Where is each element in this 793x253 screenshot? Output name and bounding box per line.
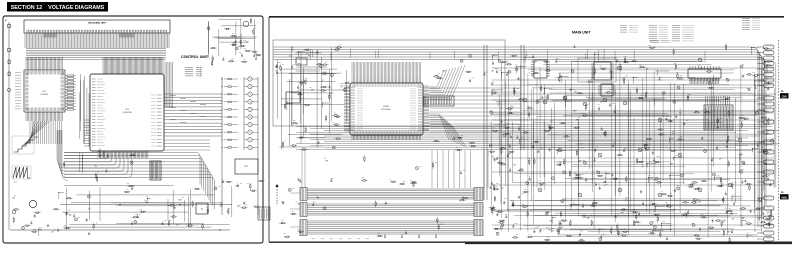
svg-text:LC75853N: LC75853N xyxy=(40,94,48,96)
svg-text:to: to xyxy=(781,190,784,194)
svg-text:MAIN UNIT: MAIN UNIT xyxy=(572,31,591,35)
svg-text:IC301: IC301 xyxy=(383,106,389,108)
svg-text:SECTION 12 VOLTAGE DIAGRAMS: SECTION 12 VOLTAGE DIAGRAMS xyxy=(11,5,105,11)
svg-text:to: to xyxy=(781,89,784,93)
svg-text:UPD78044F: UPD78044F xyxy=(381,109,390,111)
svg-text:X1: X1 xyxy=(201,209,203,211)
svg-text:CONTROL UNIT: CONTROL UNIT xyxy=(181,55,209,59)
svg-text:SW BOARD UNIT: SW BOARD UNIT xyxy=(88,22,107,25)
svg-text:CN2: CN2 xyxy=(782,94,788,98)
svg-text:RY1: RY1 xyxy=(244,166,248,168)
svg-text:D(B): D(B) xyxy=(781,195,787,199)
svg-text:LC866232A: LC866232A xyxy=(123,111,133,114)
